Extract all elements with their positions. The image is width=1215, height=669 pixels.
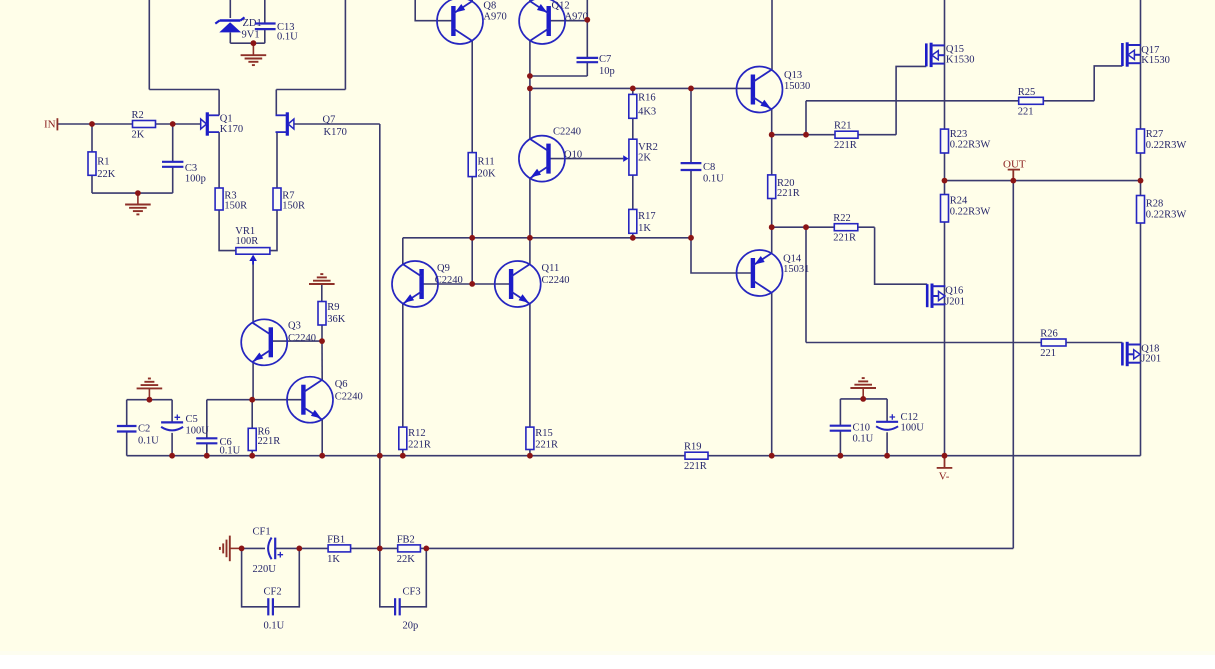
wire C8 to Q14 base <box>691 238 753 273</box>
capacitor C12 100U <box>876 412 924 434</box>
junction ZD1-C13 ground node <box>251 40 257 46</box>
transistor Q6 C2240 <box>287 377 363 423</box>
capacitor C3 100p <box>162 162 206 185</box>
wire CF1 ground link <box>230 547 242 549</box>
svg-text:150R: 150R <box>282 200 305 211</box>
svg-text:0.1U: 0.1U <box>138 436 159 447</box>
wire C13 bottom lead <box>264 29 266 43</box>
wire C2-C5 top wire <box>127 399 172 401</box>
wire R9 bottom lead <box>321 325 323 341</box>
transistor Q14 15031 <box>737 250 810 296</box>
svg-text:Q8: Q8 <box>483 1 496 12</box>
capacitor C7 10p <box>577 54 615 77</box>
junction bus node R12 <box>400 453 406 459</box>
wire Q9 emitter to R12 <box>402 304 404 427</box>
transistor Q11 C2240 <box>495 261 570 307</box>
transistor Q16 J201 <box>927 284 965 308</box>
wire R21 to Q15 gate <box>896 66 926 134</box>
wire right box horizontal <box>276 89 345 91</box>
wire FB1 right wire <box>351 547 380 549</box>
wire V+ left box horizontal <box>149 89 219 91</box>
wire R20 top lead <box>771 135 773 175</box>
wire V+ left box vertical <box>148 0 150 90</box>
wire C8 top lead <box>690 88 692 163</box>
svg-text:C2240: C2240 <box>288 333 316 344</box>
svg-text:C5: C5 <box>186 414 198 425</box>
junction bus node V- <box>942 453 948 459</box>
junction Q3e-Q6b-R6 node <box>249 397 255 403</box>
svg-text:22K: 22K <box>97 169 116 180</box>
wire C5 top lead <box>171 400 173 423</box>
svg-text:K170: K170 <box>324 127 347 138</box>
wire ZD1 ground stub <box>252 43 254 55</box>
transistor Q1 K170 <box>201 112 243 135</box>
junction bus node C6 <box>204 453 210 459</box>
svg-text:220U: 220U <box>253 564 277 575</box>
svg-text:1K: 1K <box>327 554 340 565</box>
wire Q3 base wire <box>271 340 322 342</box>
junction bus node R15 <box>527 453 533 459</box>
ground GND at C10 C12 <box>850 378 876 388</box>
wire Q3 emitter lead <box>252 362 254 400</box>
svg-text:C7: C7 <box>599 54 611 65</box>
resistor R17 <box>629 209 656 234</box>
ground GND at CF1 <box>220 536 230 562</box>
wire ZD1-C13 bottom wire <box>230 42 264 44</box>
wire VR2-R17 lead <box>632 175 634 209</box>
transistor Q13 15030 <box>737 67 811 113</box>
wire R24 to Q16 <box>944 222 946 456</box>
capacitor C6 0.1U <box>196 437 240 457</box>
svg-text:221R: 221R <box>535 439 558 450</box>
svg-text:J201: J201 <box>1141 354 1161 365</box>
wire R6 bottom lead <box>251 451 253 456</box>
wire R25 long wire <box>806 100 1019 102</box>
svg-text:221R: 221R <box>408 439 431 450</box>
svg-text:C12: C12 <box>901 412 919 423</box>
svg-text:10p: 10p <box>599 66 615 77</box>
ground GND at input <box>125 205 151 215</box>
wire R16-VR2 lead <box>632 118 634 139</box>
wire C7 to Q12 collector line <box>530 75 587 77</box>
wire C12 bottom lead <box>886 432 888 455</box>
junction bus node C10 <box>838 453 844 459</box>
svg-text:R25: R25 <box>1018 87 1036 98</box>
junction feedback node B <box>296 546 302 552</box>
wire Q10 emitter down <box>529 179 531 265</box>
capacitor C10 0.1U <box>830 423 874 445</box>
resistor R20 <box>768 175 800 199</box>
wire C10 bottom lead <box>839 431 841 456</box>
junction bus node Q6 <box>319 453 325 459</box>
wire R26 tap vertical <box>805 227 807 342</box>
wire R1-C3 bottom wire <box>92 192 173 194</box>
wire FB1 left wire <box>299 547 328 549</box>
junction feedback node C <box>377 546 383 552</box>
transistor Q18 J201 <box>1122 342 1161 366</box>
wire ground bus left <box>127 455 685 457</box>
junction lower rail node D <box>688 235 694 241</box>
resistor FB2 <box>397 534 421 565</box>
wire C5 bottom lead <box>171 433 173 456</box>
svg-text:4K3: 4K3 <box>638 107 656 118</box>
svg-text:2K: 2K <box>638 153 651 164</box>
svg-text:A970: A970 <box>483 12 506 23</box>
svg-text:0.22R3W: 0.22R3W <box>950 207 991 218</box>
resistor R12 <box>399 427 431 450</box>
svg-text:Q12: Q12 <box>552 1 570 12</box>
resistor R26 <box>1040 329 1066 360</box>
resistor R24 <box>941 195 991 223</box>
wire Q12 base net up <box>586 0 588 20</box>
svg-text:R23: R23 <box>950 129 968 140</box>
resistor R16 <box>629 92 656 118</box>
wire Q14e node wire <box>772 226 835 228</box>
svg-text:R11: R11 <box>478 156 495 167</box>
resistor R15 <box>526 427 558 450</box>
resistor R22 <box>833 213 858 244</box>
svg-text:221R: 221R <box>684 461 707 472</box>
svg-text:0.1U: 0.1U <box>703 173 724 184</box>
svg-text:R17: R17 <box>638 211 656 222</box>
wire C8 bottom lead <box>690 170 692 238</box>
wire VR1 wiper to Q3 <box>252 260 254 322</box>
svg-text:R21: R21 <box>834 121 852 132</box>
svg-text:150R: 150R <box>224 200 247 211</box>
svg-text:100U: 100U <box>901 423 925 434</box>
wire feedback long wire <box>426 547 1013 549</box>
resistor R2 <box>132 110 156 141</box>
svg-text:R22: R22 <box>833 213 851 224</box>
svg-text:R26: R26 <box>1040 329 1058 340</box>
transistor Q3 C2240 <box>241 319 316 365</box>
wire R11 rail to base junction <box>471 238 473 284</box>
svg-text:CF3: CF3 <box>403 587 421 598</box>
transistor Q12 A970 <box>519 0 588 44</box>
svg-text:100p: 100p <box>185 174 206 185</box>
wire Q7 gate wire <box>294 123 380 125</box>
svg-text:221R: 221R <box>834 140 857 151</box>
capacitor CF2 0.1U <box>264 587 285 632</box>
svg-text:221R: 221R <box>777 188 800 199</box>
svg-text:0.22R3W: 0.22R3W <box>1146 210 1187 221</box>
svg-text:VR2: VR2 <box>638 142 658 153</box>
junction Q14 emitter node <box>769 224 775 230</box>
svg-text:Q14: Q14 <box>783 254 802 265</box>
junction feedback node D <box>423 546 429 552</box>
wire FB2 left wire <box>380 547 398 549</box>
wire CF3 loop right <box>400 548 427 606</box>
junction bus node C5 <box>169 453 175 459</box>
wire C2 C5 ground stub <box>148 388 150 399</box>
wire Q13 emitter lead <box>771 109 773 134</box>
junction R26 tap node <box>803 224 809 230</box>
wire Q6 base wire <box>207 399 304 401</box>
wire C6 bottom lead <box>206 443 208 455</box>
transistor Q8 A970 <box>437 0 507 44</box>
ground GND at R9 <box>309 274 335 284</box>
port V- <box>937 456 953 483</box>
capacitor CF3 20p <box>395 587 420 632</box>
wire right box vertical <box>344 0 346 90</box>
transistor Q17 K1530 <box>1122 42 1169 66</box>
svg-text:R1: R1 <box>97 157 109 168</box>
wire Q12 collector down <box>529 41 531 139</box>
wire C13 top lead <box>264 0 266 24</box>
resistor R27 <box>1137 129 1187 153</box>
junction lower rail node B <box>527 235 533 241</box>
junction C7 node <box>527 73 533 79</box>
wire R25 right wire <box>1043 100 1094 102</box>
wire input ground stub <box>137 193 139 204</box>
transistor Q7 K170 <box>276 112 347 138</box>
wire Q8 collector to R11 <box>471 41 473 153</box>
resistor R25 <box>1018 87 1044 118</box>
svg-text:221R: 221R <box>833 233 856 244</box>
resistor R28 <box>1137 196 1187 224</box>
wire OUT wire <box>945 180 1141 182</box>
resistor R19 <box>684 442 708 473</box>
svg-text:C2240: C2240 <box>435 275 463 286</box>
junction R25 tap node <box>803 132 809 138</box>
svg-text:FB1: FB1 <box>327 534 345 545</box>
wire R16 top lead <box>632 88 634 94</box>
svg-text:20K: 20K <box>478 168 497 179</box>
svg-text:Q11: Q11 <box>542 263 560 274</box>
svg-text:Q16: Q16 <box>945 286 963 297</box>
svg-text:221: 221 <box>1018 106 1034 117</box>
svg-text:C10: C10 <box>853 423 871 434</box>
svg-text:Q10: Q10 <box>564 150 582 161</box>
potentiometer VR2 <box>623 139 658 175</box>
svg-text:2K: 2K <box>132 130 145 141</box>
wire C7 bottom lead <box>586 62 588 76</box>
resistor R11 <box>468 153 496 180</box>
svg-text:OUT: OUT <box>1003 159 1026 171</box>
junction OUT node A <box>942 178 948 184</box>
wire R1 bottom lead <box>91 175 93 193</box>
junction bus node C12 <box>884 453 890 459</box>
resistor R3 <box>215 188 247 211</box>
svg-text:15030: 15030 <box>784 81 810 92</box>
capacitor C13 0.1U <box>255 22 298 43</box>
junction bus node R6 <box>249 453 255 459</box>
svg-text:V-: V- <box>939 471 950 483</box>
svg-text:C2240: C2240 <box>553 126 581 137</box>
junction C2-C5 ground node <box>147 397 153 403</box>
wire IN wire <box>57 123 200 125</box>
svg-text:CF1: CF1 <box>253 527 271 538</box>
svg-text:0.1U: 0.1U <box>220 446 241 457</box>
wire Q6 emitter lead <box>321 420 323 456</box>
wire R21 right wire <box>858 134 896 136</box>
junction Q12 base node <box>584 17 590 23</box>
wire C10 top lead <box>839 399 841 426</box>
svg-text:C2240: C2240 <box>542 275 570 286</box>
junction upper rail node B <box>630 86 636 92</box>
capacitor C8 0.1U <box>681 162 725 184</box>
wire FB2 right wire <box>420 547 426 549</box>
ground GND at ZD1 <box>241 55 267 65</box>
svg-text:Q9: Q9 <box>437 263 450 274</box>
svg-text:22K: 22K <box>397 554 416 565</box>
wire R22 right wire <box>858 226 875 228</box>
junction lower rail node C <box>630 235 636 241</box>
svg-text:221R: 221R <box>258 436 281 447</box>
svg-text:R15: R15 <box>535 428 553 439</box>
resistor R1 <box>88 152 116 180</box>
junction OUT node C <box>1138 178 1144 184</box>
svg-text:K170: K170 <box>220 124 243 135</box>
svg-text:100U: 100U <box>186 425 210 436</box>
svg-text:Q15: Q15 <box>946 44 964 55</box>
resistor R23 <box>941 129 991 153</box>
wire Q7 drain lead <box>275 90 277 116</box>
junction OUT node B <box>1010 178 1016 184</box>
wire CF1 left lead <box>242 547 265 549</box>
wire Q13e node wire <box>772 134 835 136</box>
junction bus node FB <box>377 453 383 459</box>
wire Q10 base to VR2 wiper <box>549 158 623 160</box>
wire ZD1 bottom lead <box>229 33 231 44</box>
svg-text:15031: 15031 <box>783 264 809 275</box>
svg-text:Q6: Q6 <box>335 379 348 390</box>
junction C10-C12 ground node <box>860 396 866 402</box>
svg-text:Q3: Q3 <box>288 321 301 332</box>
wire Q14 collector lead <box>771 293 773 456</box>
wire R3 to VR1 <box>219 210 236 251</box>
wire Q12 emitter stub <box>529 0 531 2</box>
wire R22 to Q16 gate <box>875 227 928 284</box>
svg-text:Q1: Q1 <box>220 113 233 124</box>
ground GND at C2 C5 <box>137 379 163 389</box>
svg-text:C2240: C2240 <box>335 392 363 403</box>
capacitor C2 0.1U <box>117 424 159 447</box>
svg-text:R16: R16 <box>638 92 656 103</box>
resistor R21 <box>834 121 858 152</box>
svg-text:R19: R19 <box>684 442 702 453</box>
transistor Q10 C2240 <box>519 126 582 181</box>
resistor R7 <box>273 188 305 211</box>
svg-text:20p: 20p <box>403 621 419 632</box>
wire R9 ground stub <box>321 284 323 302</box>
wire Q8 emitter stub <box>471 0 473 2</box>
svg-text:CF2: CF2 <box>264 587 282 598</box>
wire lower rail <box>403 237 691 239</box>
wire C2 bottom lead <box>126 432 128 456</box>
wire feedback drop <box>1012 181 1014 549</box>
wire C10 C12 ground stub <box>862 388 864 399</box>
junction bus node Q14 <box>769 453 775 459</box>
wire Q1 drain lead <box>218 90 220 116</box>
wire R17 bottom lead <box>632 233 634 238</box>
wire R20 bottom lead <box>771 199 773 228</box>
svg-text:0.1U: 0.1U <box>277 32 298 43</box>
junction lower rail node A <box>469 235 475 241</box>
wire C10-C12 top wire <box>840 398 887 400</box>
svg-text:0.1U: 0.1U <box>853 433 874 444</box>
wire R1 top lead <box>91 124 93 152</box>
svg-text:100R: 100R <box>236 236 259 247</box>
svg-text:0.22R3W: 0.22R3W <box>950 140 991 151</box>
port IN <box>44 118 57 130</box>
wire R9 junction to Q6 collector <box>321 341 323 380</box>
capacitor C5 100U <box>161 414 209 436</box>
wire CF3 loop left <box>380 548 395 606</box>
svg-text:K1530: K1530 <box>1141 55 1170 66</box>
svg-text:R24: R24 <box>950 196 968 207</box>
capacitor CF1 220U <box>253 527 284 575</box>
wire Q11 emitter to R15 <box>529 304 531 427</box>
wire rail to Q13 base <box>530 87 752 89</box>
svg-text:C8: C8 <box>703 162 715 173</box>
wire Q9-Q11 base wire <box>422 283 512 285</box>
wire C12 top lead <box>886 399 888 422</box>
svg-text:K1530: K1530 <box>946 55 975 66</box>
wire Q9 collector lead <box>402 238 404 264</box>
svg-text:0.22R3W: 0.22R3W <box>1146 140 1187 151</box>
wire C3 top lead <box>172 124 174 162</box>
wire Q14 emitter lead <box>771 227 773 253</box>
svg-text:1K: 1K <box>638 223 651 234</box>
junction input ground node <box>135 190 141 196</box>
wire R6 top lead <box>251 400 253 429</box>
svg-text:IN: IN <box>44 119 56 131</box>
wire Q1 source to R3 <box>218 132 220 188</box>
svg-text:221: 221 <box>1040 348 1056 359</box>
wire R25 tap vertical <box>805 101 807 135</box>
junction IN node <box>89 121 95 127</box>
svg-text:C2: C2 <box>138 424 150 435</box>
junction upper rail node C <box>688 86 694 92</box>
wire ground bus right <box>708 455 1141 457</box>
svg-text:C3: C3 <box>185 163 197 174</box>
wire R23 to OUT <box>944 153 946 195</box>
wire R28 to Q18 to bus <box>1140 223 1142 456</box>
wire R7 top lead <box>276 132 278 188</box>
svg-text:Q13: Q13 <box>784 70 802 81</box>
wire positive rail Q15 <box>944 0 946 129</box>
port OUT <box>1003 159 1026 181</box>
wire R11 to rail <box>471 177 473 238</box>
wire C2 top lead <box>126 400 128 426</box>
zener ZD1 <box>215 17 261 40</box>
resistor R9 <box>318 302 346 326</box>
wire C3 bottom lead <box>172 167 174 193</box>
junction upper rail node A <box>527 86 533 92</box>
svg-text:R28: R28 <box>1146 199 1164 210</box>
wire R12 bottom lead <box>402 450 404 456</box>
wire R25 to Q17 gate <box>1094 66 1122 101</box>
svg-text:R12: R12 <box>408 428 426 439</box>
resistor FB1 <box>327 534 351 565</box>
potentiometer VR1 <box>235 226 270 265</box>
wire R27-R28 link <box>1140 153 1142 196</box>
transistor Q9 C2240 <box>392 261 463 307</box>
svg-text:R2: R2 <box>132 110 144 121</box>
wire CF2 loop right <box>273 548 299 606</box>
wire Q17 rail <box>1140 0 1142 129</box>
svg-text:R27: R27 <box>1146 129 1164 140</box>
wire Q7 gate drop (long vertical) <box>379 124 381 548</box>
wire Q13 collector up <box>771 0 773 70</box>
svg-text:36K: 36K <box>327 314 346 325</box>
wire Q12 base wire <box>549 20 588 22</box>
junction Q13 emitter node <box>769 132 775 138</box>
junction Q9-Q11 base node <box>469 281 475 287</box>
junction feedback node A <box>239 546 245 552</box>
wire R26 long wire <box>806 342 1041 344</box>
